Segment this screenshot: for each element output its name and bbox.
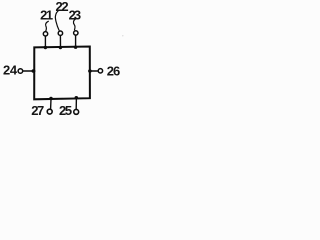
terminal circle pin23	[74, 31, 78, 35]
wire pin21 stub	[44, 36, 46, 47]
junction dot pin23	[74, 46, 77, 49]
junction dot pin26	[88, 69, 92, 73]
junction dot pin25	[75, 96, 79, 100]
faint scan speck	[122, 35, 123, 36]
junction dot pin21	[44, 46, 47, 49]
svg-text:23: 23	[69, 8, 81, 23]
terminal circle pin21	[43, 32, 47, 36]
IC box U1	[34, 47, 90, 100]
wire pin24	[23, 70, 35, 72]
svg-text:25: 25	[59, 103, 72, 118]
junction dot pin22	[59, 46, 62, 49]
svg-text:21: 21	[40, 8, 53, 23]
wire pin23 stub	[75, 36, 77, 48]
wire pin22 stub	[59, 36, 61, 48]
svg-text:22: 22	[56, 0, 69, 14]
wire pin25 stub	[75, 98, 77, 109]
wire pin27 stub	[50, 99, 52, 109]
terminal circle pin27	[47, 109, 52, 114]
svg-text:27: 27	[31, 103, 44, 118]
leader squiggle 21	[46, 21, 49, 31]
junction dot pin27	[49, 97, 53, 101]
wire pin26	[90, 70, 98, 72]
junction dot pin24	[32, 69, 36, 73]
terminal circle pin25	[74, 109, 79, 114]
terminal circle pin24	[18, 69, 23, 74]
svg-text:26: 26	[107, 63, 120, 78]
svg-text:24: 24	[3, 63, 18, 78]
leader squiggle 23	[73, 19, 75, 30]
leader squiggle 22	[55, 10, 59, 30]
terminal circle pin26	[98, 69, 102, 73]
terminal circle pin22	[58, 31, 62, 35]
